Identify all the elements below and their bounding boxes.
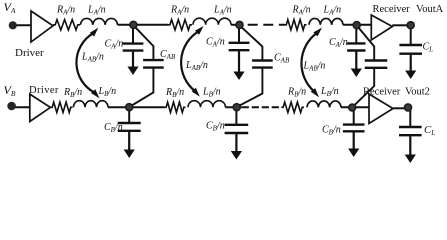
svg-text:Driver: Driver [15,47,44,59]
svg-text:Receiver: Receiver [373,4,411,15]
svg-text:VoutA: VoutA [416,4,444,15]
svg-text:Receiver: Receiver [363,86,401,97]
svg-text:Vout2: Vout2 [405,86,430,97]
svg-text:Driver: Driver [29,85,59,96]
